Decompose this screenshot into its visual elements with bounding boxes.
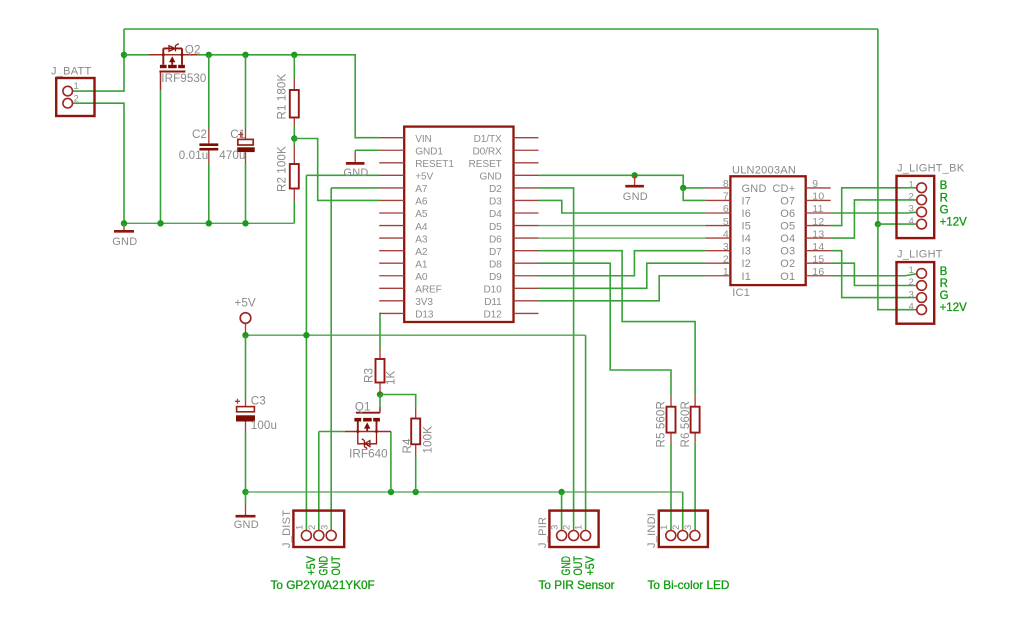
ground (battery) lead green part [123, 223, 125, 226]
svg-text:3: 3 [550, 524, 561, 530]
svg-text:+12V: +12V [940, 302, 968, 314]
wire R6 bottom to J_INDI pin3 [694, 443, 696, 531]
junction R1/R2 divider node [291, 135, 297, 141]
arduino pin A0 stub [379, 275, 404, 277]
arduino pin D8 stub [514, 262, 539, 264]
svg-text:O4: O4 [780, 233, 795, 245]
arduino pin GND1 stub [379, 149, 404, 151]
arduino pin D7 stub [514, 250, 539, 252]
arduino pin VIN stub [379, 137, 404, 139]
arduino pin D11 stub [514, 300, 539, 302]
svg-text:G: G [940, 204, 949, 216]
wire arduino GND to ULN pin8 [539, 175, 706, 188]
svg-text:D12: D12 [483, 310, 502, 321]
svg-text:VIN: VIN [415, 134, 432, 145]
svg-text:4: 4 [723, 228, 729, 240]
junction Q2 source / GND rail [388, 489, 394, 495]
junction R3 bottom / Q1 gate / R4 [377, 391, 383, 397]
J_BATT pin 2 [63, 98, 73, 108]
ground (battery) [123, 226, 125, 230]
wire O3 to J_LIGHT pin3 G [831, 251, 917, 298]
svg-text:1: 1 [574, 524, 585, 530]
svg-text:+5V: +5V [235, 297, 256, 310]
resistor R3 1K [379, 349, 381, 395]
wire C1 top lead [245, 55, 247, 129]
svg-text:+5V: +5V [583, 555, 597, 575]
svg-text:2: 2 [908, 277, 914, 288]
wire R4 bottom to GND rail [415, 456, 417, 493]
resistor R1 180K [293, 77, 295, 126]
ULN2003 pin 6 I6 stub [705, 212, 730, 214]
svg-text:R1 180K: R1 180K [276, 74, 289, 120]
wire GND1 pin to ground symbol [355, 149, 379, 151]
svg-text:2: 2 [908, 192, 914, 203]
svg-text:GND: GND [623, 191, 648, 203]
wire O5 to J_LIGHT_BK pin1 B [831, 188, 917, 226]
svg-text:3: 3 [908, 289, 914, 300]
connector J_BATT [56, 78, 94, 116]
arduino pin D0/RX stub [514, 149, 539, 151]
svg-text:To GP2Y0A21YK0F: To GP2Y0A21YK0F [271, 578, 375, 592]
svg-text:Q2: Q2 [185, 44, 201, 57]
J_LIGHT pin 1 [917, 269, 927, 279]
wire D13 to R3 top [378, 313, 381, 348]
J_LIGHT pin 3 [917, 293, 927, 303]
svg-text:1K: 1K [384, 370, 397, 385]
arduino pin D6 stub [514, 237, 539, 239]
arduino pin A5 stub [379, 212, 404, 214]
svg-text:+12V: +12V [940, 217, 968, 229]
junction R4 / GND rail [413, 489, 419, 495]
svg-text:1: 1 [659, 524, 670, 530]
svg-text:O1: O1 [780, 271, 795, 283]
junction C1 top [242, 52, 248, 58]
wire GND symbol stub [245, 492, 247, 504]
svg-text:100u: 100u [251, 419, 277, 432]
ULN2003 pin 8 GND stub [705, 187, 730, 189]
arduino pin A1 stub [379, 262, 404, 264]
svg-text:9: 9 [812, 178, 818, 190]
svg-text:2: 2 [74, 94, 80, 105]
svg-text:J_BATT: J_BATT [51, 66, 91, 78]
J_LIGHT_BK pin 4 [917, 219, 927, 229]
svg-text:ULN2003AN: ULN2003AN [732, 165, 796, 177]
svg-text:I3: I3 [742, 246, 752, 258]
svg-text:J_PIR: J_PIR [537, 517, 549, 548]
wire J_BATT pin2 to GND rail [73, 103, 125, 223]
svg-text:A5: A5 [415, 209, 428, 220]
capacitor C2 0.01u [179, 128, 219, 163]
wire D8 to R5 top [539, 263, 672, 395]
J_DIST pin 3 [326, 531, 336, 541]
svg-text:O2: O2 [780, 258, 795, 270]
svg-text:7: 7 [723, 191, 729, 203]
wire D7 to R6 top [539, 251, 696, 396]
svg-text:O3: O3 [780, 246, 795, 258]
wire +12V down to light connectors [877, 29, 879, 224]
resistor R6 560R [694, 395, 696, 443]
junction R1 top [291, 52, 297, 58]
svg-text:16: 16 [812, 266, 824, 278]
junction C2 top [206, 52, 212, 58]
svg-text:A0: A0 [415, 272, 428, 283]
wire down to J_DIST pin2 [318, 432, 320, 532]
wire R3 bottom to Q1 gate [379, 395, 381, 407]
arduino pin D4 stub [514, 212, 539, 214]
J_INDI pin 3 [690, 531, 700, 541]
svg-text:To PIR Sensor: To PIR Sensor [539, 578, 615, 592]
J_LIGHT_BK pin 1 [917, 183, 927, 193]
connector J_LIGHT_BK [897, 176, 935, 238]
ULN2003 pin 3 I3 stub [705, 250, 730, 252]
connector J_INDI indicator led [659, 511, 708, 547]
svg-text:8: 8 [723, 178, 729, 190]
svg-text:D11: D11 [484, 297, 502, 308]
junction +5V column / rail [303, 332, 309, 338]
J_DIST pin 1 [301, 531, 311, 541]
ground (bottom rail) [245, 504, 247, 515]
svg-text:D1/TX: D1/TX [474, 134, 502, 145]
svg-text:J_LIGHT_BK: J_LIGHT_BK [897, 162, 965, 174]
ground (near ULN2003) [634, 175, 636, 185]
svg-text:J_DIST: J_DIST [281, 510, 293, 548]
junction Q2 gate / GND rail [157, 220, 163, 226]
wire C2 bottom to GND rail [208, 163, 210, 224]
J_LIGHT pin 2 [917, 281, 927, 291]
wire D10 to I2 [539, 263, 706, 288]
svg-text:I5: I5 [742, 221, 752, 233]
wire Q2 gate to GND rail [160, 90, 162, 223]
svg-text:O7: O7 [780, 195, 795, 207]
ULN2003 pin 13 O4 stub [806, 237, 831, 239]
J_INDI pin 1 [666, 531, 676, 541]
J_LIGHT_BK pin 3 [917, 207, 927, 217]
arduino pin D10 stub [514, 287, 539, 289]
arduino pin A7 stub [379, 187, 404, 189]
J_PIR pin 2 [569, 531, 579, 541]
svg-text:R6 560R: R6 560R [679, 401, 692, 447]
svg-text:11: 11 [812, 203, 823, 215]
wire O4 to J_LIGHT_BK pin2 R [831, 200, 917, 238]
svg-text:A4: A4 [415, 222, 428, 233]
resistor R2 body [290, 164, 299, 189]
svg-text:D3: D3 [489, 197, 502, 208]
wire D3 to I6 [539, 200, 706, 213]
J_LIGHT pin 4 [917, 305, 927, 315]
wire C3 top lead [245, 335, 247, 398]
svg-text:A7: A7 [415, 184, 428, 195]
svg-text:4: 4 [908, 301, 914, 312]
svg-text:D0/RX: D0/RX [472, 146, 502, 157]
svg-text:I4: I4 [742, 233, 752, 245]
arduino pin A2 stub [379, 250, 404, 252]
svg-text:GND: GND [112, 236, 137, 248]
capacitor C3 100u polarized [235, 395, 277, 433]
resistor R2 100K [293, 146, 295, 201]
junction +5V symbol / C3 [242, 332, 248, 338]
arduino pin AREF stub [379, 287, 404, 289]
wire GND to J_INDI pin2 [682, 492, 684, 531]
wire R5 bottom to J_INDI pin1 [670, 443, 672, 531]
ULN2003 pin 11 O6 stub [806, 212, 831, 214]
J_BATT pin 1 [63, 86, 73, 96]
svg-text:GND: GND [742, 183, 767, 195]
svg-text:1: 1 [295, 524, 306, 530]
wire Q1 drain to J_DIST pin2 wire [319, 431, 345, 433]
svg-text:RESET1: RESET1 [415, 159, 454, 170]
J_LIGHT_BK pin 2 [917, 195, 927, 205]
svg-text:15: 15 [812, 253, 824, 265]
wire C3 bottom to GND rail [245, 433, 247, 493]
arduino pin A4 stub [379, 225, 404, 227]
resistor R5 body [667, 407, 676, 433]
wire J_BATT pin1 to top rail [73, 29, 125, 91]
svg-text:IC1: IC1 [732, 287, 750, 299]
svg-text:10: 10 [812, 191, 824, 203]
wire D11 to I1 [539, 276, 706, 301]
wire divider node to A6 [294, 139, 379, 201]
svg-text:14: 14 [812, 241, 824, 253]
wire +5V pin [306, 174, 379, 176]
IC U2 ULN2003AN box [730, 176, 805, 285]
resistor R6 body [691, 407, 700, 433]
svg-text:IRF9530: IRF9530 [161, 72, 206, 85]
arduino pin D5 stub [514, 225, 539, 227]
svg-text:CD+: CD+ [772, 183, 795, 195]
svg-text:1: 1 [74, 81, 80, 92]
svg-text:D13: D13 [415, 310, 434, 321]
ULN2003 pin 10 O7 stub [806, 199, 831, 201]
wire R1 top lead [293, 55, 295, 77]
wire to ULN pin7 I7 [683, 188, 705, 201]
svg-text:D6: D6 [489, 234, 502, 245]
svg-text:GND: GND [480, 172, 502, 183]
svg-text:2: 2 [671, 524, 682, 530]
junction battery- / GND rail / ground tap [121, 220, 127, 226]
J_DIST pin 2 [314, 531, 324, 541]
svg-text:2: 2 [307, 524, 318, 530]
svg-text:I1: I1 [742, 271, 752, 283]
ULN2003 pin 4 I4 stub [705, 237, 730, 239]
wire +12V to J_LIGHT pin4 [878, 224, 917, 310]
arduino pin 3V3 stub [379, 300, 404, 302]
wire O6 to J_LIGHT_BK pin3 G [831, 211, 917, 214]
svg-text:6: 6 [723, 203, 729, 215]
wire R1 bottom to divider node [293, 126, 295, 139]
svg-text:IRF640: IRF640 [349, 448, 388, 461]
svg-text:5: 5 [723, 216, 729, 228]
connector J_LIGHT [897, 262, 935, 324]
svg-text:R4: R4 [401, 438, 414, 453]
transistor Q1 IRF640 N-MOSFET [345, 400, 391, 460]
wire GND to J_PIR pin3 [561, 492, 563, 531]
arduino pin D1/TX stub [514, 137, 539, 139]
ULN2003 pin 12 O5 stub [806, 225, 831, 227]
svg-text:12: 12 [812, 216, 824, 228]
svg-text:3: 3 [908, 204, 914, 215]
svg-text:R: R [940, 278, 948, 290]
transistor Q2 IRF9530 P-MOSFET [148, 44, 206, 91]
wire A7 pin [331, 187, 379, 189]
wire C1 bottom to GND rail [245, 163, 247, 224]
svg-text:D2: D2 [489, 184, 502, 195]
svg-text:A3: A3 [415, 234, 428, 245]
svg-text:D4: D4 [489, 209, 502, 220]
ULN2003 pin 2 I2 stub [705, 262, 730, 264]
op-amp U1 arduino module box [404, 127, 513, 322]
wire D6 to I4 [539, 237, 706, 239]
arduino pin RESET1 stub [379, 162, 404, 164]
wire D9 to I3 [539, 251, 706, 276]
ULN2003 pin 5 I5 stub [705, 225, 730, 227]
wire bottom GND rail [246, 491, 683, 493]
J_PIR pin 1 [581, 531, 591, 541]
connector J_DIST distance sensor [293, 511, 344, 547]
resistor R5 560R [670, 395, 672, 443]
wire R3 bottom to R4 top [380, 395, 416, 408]
ULN2003 pin 1 I1 stub [705, 275, 730, 277]
svg-text:1: 1 [908, 180, 914, 191]
svg-text:I2: I2 [742, 258, 752, 270]
resistor R4 body [411, 419, 420, 445]
ground (near GND1) [354, 150, 356, 162]
wire +12V battery raw top rail [124, 28, 878, 30]
svg-text:D8: D8 [489, 259, 502, 270]
ULN2003 pin 16 O1 stub [806, 275, 831, 277]
svg-text:GND1: GND1 [415, 146, 443, 157]
svg-text:R: R [940, 192, 948, 204]
svg-text:O5: O5 [780, 221, 795, 233]
wire C2 top lead [208, 55, 210, 129]
svg-text:D5: D5 [489, 222, 502, 233]
svg-text:C3: C3 [251, 395, 266, 408]
+5V supply symbol [240, 313, 251, 324]
ULN2003 pin 9 CD+ stub [806, 187, 831, 189]
ULN2003 pin 14 O3 stub [806, 250, 831, 252]
svg-text:+5V: +5V [415, 172, 433, 183]
svg-text:B: B [940, 266, 948, 278]
wire D5 to I5 [539, 225, 706, 227]
arduino pin D3 stub [514, 199, 539, 201]
arduino pin D2 stub [514, 187, 539, 189]
svg-text:R2 100K: R2 100K [276, 146, 289, 192]
arduino pin GND stub [514, 174, 539, 176]
arduino pin D9 stub [514, 275, 539, 277]
arduino pin D13 stub [379, 312, 404, 314]
wire +12V to J_LIGHT_BK pin4 [878, 223, 917, 225]
svg-text:Q1: Q1 [355, 400, 371, 413]
svg-text:RESET: RESET [469, 159, 502, 170]
wire R2 bottom to GND rail [293, 201, 295, 224]
svg-text:To Bi-color LED: To Bi-color LED [648, 578, 730, 592]
svg-text:B: B [940, 180, 948, 192]
resistor R3 body [376, 359, 385, 383]
svg-text:0.01u: 0.01u [179, 149, 209, 162]
svg-text:I6: I6 [742, 208, 752, 220]
wire O2 to J_LIGHT pin2 R [831, 263, 917, 285]
wire D2 down to J_PIR OUT [539, 188, 574, 531]
wire +5V rail down to J_PIR pin1 [585, 335, 587, 531]
resistor R1 body [290, 90, 299, 118]
svg-text:R3: R3 [363, 368, 376, 383]
svg-text:3: 3 [319, 524, 330, 530]
svg-text:13: 13 [812, 228, 824, 240]
svg-text:J_INDI: J_INDI [646, 513, 658, 548]
junction C1 / GND rail [242, 220, 248, 226]
arduino pin +5V stub [379, 174, 404, 176]
svg-text:I7: I7 [742, 195, 752, 207]
svg-text:4: 4 [908, 216, 914, 227]
svg-text:3V3: 3V3 [415, 297, 433, 308]
resistor R4 100K [415, 407, 417, 455]
wire +5V rail [246, 334, 586, 336]
arduino pin A3 stub [379, 237, 404, 239]
capacitor C1 470u polarized [219, 128, 254, 163]
junction battery+ / Q2 source [121, 52, 127, 58]
svg-text:AREF: AREF [415, 285, 442, 296]
junction GND rail left end [242, 489, 248, 495]
wire A7 column down to J_DIST pin3 [330, 188, 332, 531]
wire upper GND rail [124, 222, 294, 224]
svg-text:R5 560R: R5 560R [655, 401, 668, 447]
ULN2003 pin 15 O2 stub [806, 262, 831, 264]
svg-text:A6: A6 [415, 197, 428, 208]
J_PIR pin 3 [557, 531, 567, 541]
svg-text:100K: 100K [422, 426, 435, 454]
svg-text:GND: GND [234, 519, 259, 531]
svg-text:O6: O6 [780, 208, 795, 220]
arduino pin A6 stub [379, 199, 404, 201]
J_INDI pin 2 [678, 531, 688, 541]
svg-text:GND: GND [343, 167, 368, 179]
junction GND symbol tap [631, 172, 637, 178]
svg-text:J_LIGHT: J_LIGHT [897, 249, 943, 261]
svg-text:3: 3 [683, 524, 694, 530]
svg-text:D7: D7 [489, 247, 502, 258]
svg-text:G: G [940, 290, 949, 302]
junction ULN pin8/pin7 [680, 185, 686, 191]
svg-text:OUT: OUT [329, 556, 343, 576]
svg-text:1: 1 [723, 266, 729, 278]
svg-text:3: 3 [723, 241, 729, 253]
wire O1 to J_LIGHT pin1 B [831, 274, 917, 276]
junction C2 / GND rail [206, 220, 212, 226]
svg-text:1: 1 [908, 265, 914, 276]
svg-text:2: 2 [562, 524, 573, 530]
arduino pin RESET stub [514, 162, 539, 164]
wire R2 top lead [293, 139, 295, 147]
wire +5V column down to J_DIST pin1 [305, 175, 307, 531]
svg-text:D10: D10 [483, 285, 502, 296]
junction J_PIR GND tap [558, 489, 564, 495]
svg-text:A1: A1 [415, 259, 428, 270]
wire Q2 drain to VIN [197, 55, 379, 138]
svg-text:2: 2 [723, 253, 729, 265]
wire battery+ into Q2 [124, 54, 148, 56]
ULN2003 pin 7 I7 stub [705, 199, 730, 201]
svg-text:D9: D9 [489, 272, 502, 283]
svg-text:A2: A2 [415, 247, 428, 258]
wire Q1 source to GND rail [390, 432, 392, 493]
arduino pin D12 stub [514, 312, 539, 314]
svg-text:470u: 470u [219, 149, 245, 162]
svg-text:C2: C2 [192, 128, 207, 141]
junction +12V branch [875, 221, 881, 227]
connector J_PIR pir sensor [549, 511, 598, 547]
